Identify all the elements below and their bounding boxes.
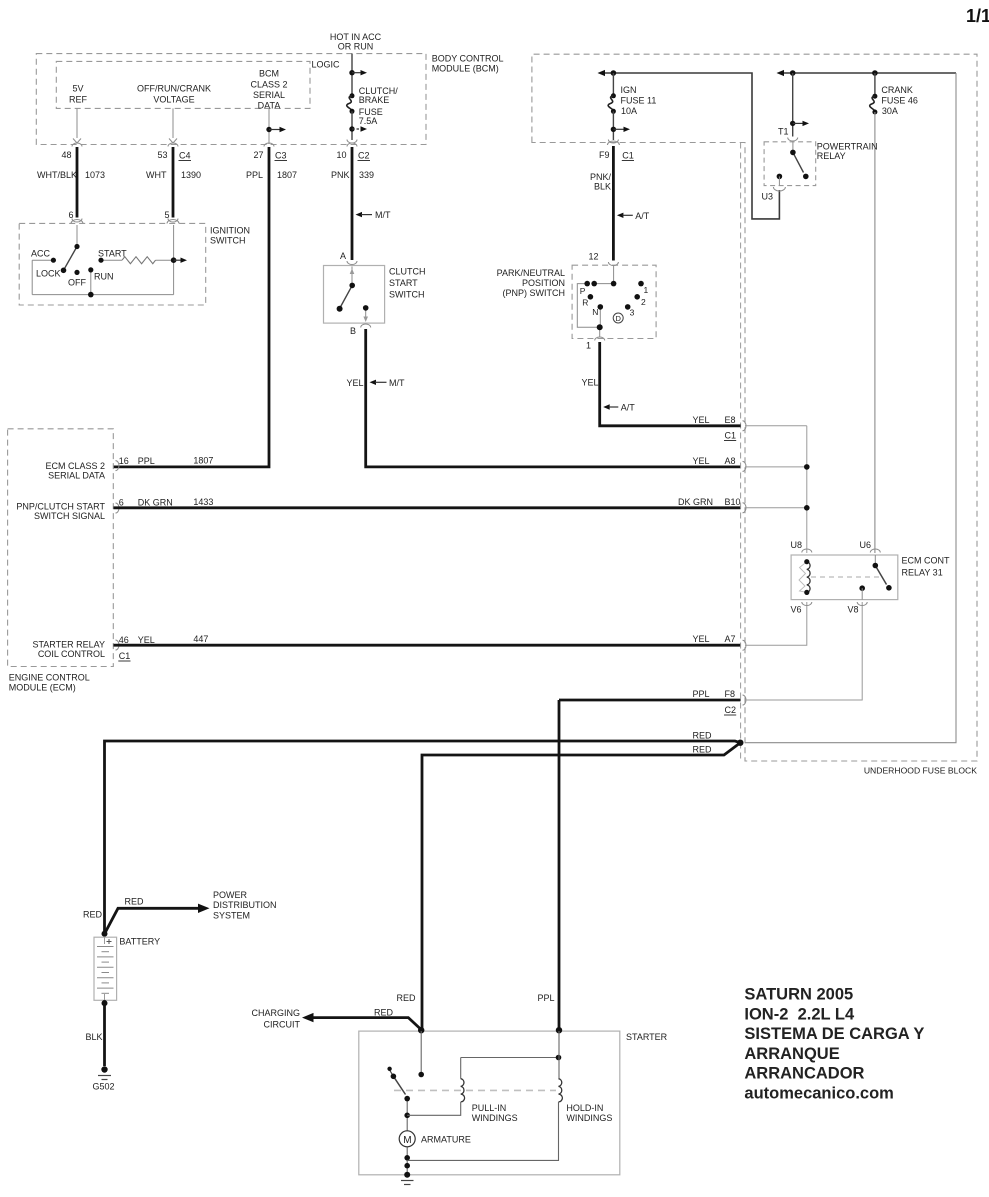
- wire PPL vertical to starter: [558, 700, 561, 1029]
- svg-text:START: START: [98, 249, 127, 259]
- wire RUN drop: [90, 270, 92, 295]
- svg-text:ARMATURE: ARMATURE: [421, 1135, 471, 1145]
- wire START to resistor: [101, 259, 122, 261]
- wire RED battery feed (row 1): [105, 741, 741, 934]
- pull-in windings label: [472, 1103, 518, 1123]
- svg-text:10: 10: [336, 150, 346, 160]
- svg-text:A: A: [340, 251, 346, 261]
- svg-text:48: 48: [61, 150, 71, 160]
- PNP switch label: [497, 268, 565, 298]
- starter box: [359, 1031, 620, 1175]
- svg-text:1807: 1807: [277, 170, 297, 180]
- wire resistor to junction: [156, 259, 174, 261]
- underhood fuse block connector face dashed line: [740, 143, 742, 762]
- hold-in windings label: [566, 1103, 612, 1123]
- svg-text:B10: B10: [725, 497, 741, 507]
- battery positive junction: [102, 931, 108, 937]
- svg-text:M/T: M/T: [389, 378, 405, 388]
- node IGN fuse tap: [611, 70, 617, 76]
- wire stub from pin6 to lever pivot: [76, 225, 78, 245]
- svg-text:PNK: PNK: [331, 170, 350, 180]
- svg-text:339: 339: [359, 170, 374, 180]
- svg-text:BATTERY: BATTERY: [119, 937, 160, 947]
- small arrow up inside clutch switch: [350, 269, 355, 275]
- svg-text:A8: A8: [725, 456, 736, 466]
- svg-text:WHT/BLK: WHT/BLK: [37, 170, 77, 180]
- svg-text:C2: C2: [358, 151, 370, 161]
- node feed junction with arrow: [349, 70, 354, 75]
- svg-text:5V: 5V: [72, 84, 83, 94]
- small arrow down inside clutch switch: [363, 317, 368, 323]
- svg-text:P: P: [580, 286, 586, 296]
- svg-text:27: 27: [253, 150, 263, 160]
- svg-text:BLK: BLK: [86, 1032, 103, 1042]
- resistor in ignition START circuit: [122, 257, 156, 264]
- node serial data junction with arrow: [266, 127, 271, 132]
- svg-text:SYSTEM: SYSTEM: [213, 911, 250, 921]
- svg-text:YEL: YEL: [693, 456, 710, 466]
- svg-text:CRANK: CRANK: [881, 85, 913, 95]
- svg-text:DK GRN: DK GRN: [138, 497, 173, 507]
- BCM module label: [432, 54, 504, 74]
- svg-text:SWITCH: SWITCH: [389, 290, 425, 300]
- svg-text:ENGINE CONTROL: ENGINE CONTROL: [9, 673, 90, 683]
- arrow at ignition junction: [174, 259, 181, 261]
- svg-text:447: 447: [193, 634, 208, 644]
- node starter RED terminal: [418, 1027, 424, 1033]
- svg-text:OFF/RUN/CRANK: OFF/RUN/CRANK: [137, 84, 211, 94]
- wire label YEL E8: [693, 415, 736, 425]
- wire RED charging circuit: [306, 1018, 421, 1030]
- svg-text:START: START: [389, 278, 418, 288]
- wire PPL F8 row (heavy): [559, 699, 741, 702]
- svg-text:T1: T1: [778, 127, 789, 137]
- contact dots ignition: [51, 244, 177, 298]
- starter motor branch: [406, 1099, 408, 1175]
- svg-text:RED: RED: [374, 1008, 394, 1018]
- svg-text:YEL: YEL: [693, 634, 710, 644]
- svg-text:DK GRN: DK GRN: [678, 497, 713, 507]
- svg-text:2: 2: [641, 297, 646, 307]
- svg-text:7.5A: 7.5A: [359, 116, 378, 126]
- svg-text:CLUTCH: CLUTCH: [389, 267, 426, 277]
- svg-text:PARK/NEUTRAL: PARK/NEUTRAL: [497, 268, 565, 278]
- svg-text:YEL: YEL: [693, 415, 710, 425]
- svg-text:PULL-IN: PULL-IN: [472, 1103, 507, 1113]
- svg-text:U3: U3: [762, 192, 774, 202]
- fuse clutch/brake 7.5A symbol: [350, 93, 355, 98]
- svg-text:RED: RED: [693, 745, 713, 755]
- node CRANK fuse tap: [872, 70, 878, 76]
- svg-text:RED: RED: [83, 910, 103, 920]
- logic box (inner BCM dashed): [56, 61, 310, 108]
- svg-text:C1: C1: [725, 431, 737, 441]
- wire YEL from PNP 1 to E8: [600, 342, 741, 426]
- svg-text:RUN: RUN: [94, 272, 114, 282]
- svg-text:CLASS 2: CLASS 2: [250, 80, 287, 90]
- title text block: [744, 986, 924, 1103]
- svg-text:M: M: [403, 1135, 411, 1146]
- svg-text:12: 12: [588, 252, 598, 262]
- svg-text:BCM: BCM: [259, 69, 279, 79]
- connector mark PNP 12: [608, 262, 618, 266]
- wire junction drop: [173, 260, 175, 294]
- wire RED to power distribution: [105, 908, 201, 934]
- svg-text:N: N: [592, 307, 598, 317]
- arrow feed 1: [598, 70, 606, 76]
- svg-text:OFF: OFF: [68, 278, 86, 288]
- svg-text:ACC: ACC: [31, 249, 51, 259]
- svg-text:A7: A7: [725, 634, 736, 644]
- svg-text:RED: RED: [397, 993, 417, 1003]
- arrow M/T below clutch switch: [370, 380, 377, 385]
- module BCM (Body Control Module) dashed box: [36, 54, 426, 145]
- connector marks at relay 31: [802, 549, 881, 606]
- connector mark U3: [773, 187, 785, 191]
- svg-text:ION-2 2.2L L4: ION-2 2.2L L4: [744, 1005, 855, 1023]
- svg-text:OR RUN: OR RUN: [338, 42, 374, 52]
- svg-text:B: B: [350, 326, 356, 336]
- svg-text:FUSE 46: FUSE 46: [881, 96, 918, 106]
- svg-text:C3: C3: [275, 151, 287, 161]
- connector mark PNP 1: [595, 337, 605, 340]
- wire WHT 1390 (BCM 53 to ignition 5): [172, 147, 175, 218]
- pull-in winding circuit: [460, 1058, 462, 1079]
- svg-text:ECM CONT: ECM CONT: [902, 556, 950, 566]
- node D (circled): [613, 313, 623, 323]
- svg-text:SERIAL DATA: SERIAL DATA: [48, 471, 105, 481]
- node fuse output junction with dashed arrow: [349, 126, 354, 131]
- svg-text:1433: 1433: [193, 497, 213, 507]
- svg-text:RELAY: RELAY: [817, 151, 846, 161]
- fuse block internal thin wires E8/A8/B10 to relay U8: [745, 426, 862, 700]
- svg-text:MODULE (BCM): MODULE (BCM): [432, 64, 499, 74]
- node HOT IN ACC OR RUN: [330, 32, 382, 52]
- battery + mark: [107, 939, 112, 944]
- svg-text:PPL: PPL: [138, 456, 155, 466]
- relay 31 linkage dashed: [811, 576, 883, 578]
- svg-text:COIL CONTROL: COIL CONTROL: [38, 649, 105, 659]
- powertrain relay internals: [792, 142, 794, 151]
- node junction A8/U8: [804, 464, 810, 470]
- svg-text:ARRANQUE: ARRANQUE: [744, 1045, 839, 1063]
- svg-text:PNK/: PNK/: [590, 172, 612, 182]
- node junction below IGN fuse with arrow: [611, 127, 616, 132]
- wire stub from pin5 to start junction: [173, 225, 175, 260]
- svg-text:E8: E8: [725, 415, 736, 425]
- wire crank fuse down to relay U6: [874, 112, 876, 553]
- svg-text:G502: G502: [93, 1082, 115, 1092]
- arrow M/T on PNK wire: [356, 212, 363, 217]
- svg-text:3: 3: [630, 308, 635, 318]
- node T1 tap: [790, 70, 796, 76]
- wire bottom rail: [32, 294, 173, 296]
- clutch start switch label: [389, 267, 426, 300]
- connector mark at clutch switch B: [361, 324, 371, 327]
- wire label PNK/BLK: [590, 172, 612, 192]
- svg-text:BRAKE: BRAKE: [359, 95, 390, 105]
- svg-text:WINDINGS: WINDINGS: [472, 1113, 518, 1123]
- node POWER DISTRIBUTION SYSTEM: [213, 890, 277, 921]
- motor M armature: [399, 1131, 415, 1147]
- svg-text:1: 1: [644, 285, 649, 295]
- fuse IGN FUSE 11 10A: [612, 73, 614, 96]
- hold-in winding circuit: [558, 1031, 560, 1079]
- node RED junction: [737, 740, 743, 746]
- svg-text:STARTER: STARTER: [626, 1032, 668, 1042]
- PNP position labels: [580, 285, 649, 318]
- svg-text:1807: 1807: [193, 456, 213, 466]
- starter solenoid contact feed: [420, 1031, 422, 1072]
- pin 16 and wire label PPL 1807: [119, 456, 214, 467]
- svg-text:1/1: 1/1: [966, 6, 989, 26]
- svg-text:C1: C1: [622, 151, 634, 161]
- node 5V REF: [69, 84, 88, 105]
- svg-text:ECM CLASS 2: ECM CLASS 2: [45, 461, 105, 471]
- value label clutch/brake fuse: [359, 86, 399, 126]
- svg-text:C2: C2: [725, 705, 737, 715]
- arrow feed 2: [777, 70, 785, 76]
- svg-text:FUSE 11: FUSE 11: [621, 96, 657, 106]
- connector mark at clutch switch A: [347, 261, 357, 265]
- svg-text:ARRANCADOR: ARRANCADOR: [744, 1065, 864, 1083]
- wire right rail down to RED junction: [745, 73, 956, 743]
- wire label WHT/BLK 1073: [37, 170, 374, 180]
- svg-text:PPL: PPL: [538, 993, 555, 1003]
- svg-text:BLK: BLK: [594, 182, 611, 192]
- underhood fuse block dashed outline (L-shape): [532, 54, 977, 761]
- wire PNK/BLK (F9 to PNP 12): [612, 146, 615, 261]
- ECM CONT RELAY 31 label: [902, 556, 950, 578]
- svg-text:POSITION: POSITION: [522, 278, 565, 288]
- svg-text:RED: RED: [693, 731, 713, 741]
- svg-text:SWITCH SIGNAL: SWITCH SIGNAL: [34, 511, 105, 521]
- svg-text:WHT: WHT: [146, 170, 167, 180]
- wire label YEL A7: [693, 634, 736, 644]
- svg-text:UNDERHOOD FUSE BLOCK: UNDERHOOD FUSE BLOCK: [864, 766, 977, 776]
- svg-text:SWITCH: SWITCH: [210, 236, 246, 246]
- svg-text:A/T: A/T: [635, 211, 650, 221]
- svg-text:(PNP) SWITCH: (PNP) SWITCH: [503, 288, 566, 298]
- clutch switch internals: [352, 267, 366, 318]
- wire label YEL A8: [693, 456, 736, 466]
- svg-text:LOGIC: LOGIC: [312, 60, 341, 70]
- svg-text:IGNITION: IGNITION: [210, 226, 250, 236]
- svg-text:10A: 10A: [621, 106, 637, 116]
- connector marks at ignition switch top: [71, 219, 179, 224]
- svg-text:RELAY 31: RELAY 31: [902, 568, 943, 578]
- svg-text:F9: F9: [599, 150, 610, 160]
- connector marks at ECM right edge: [116, 461, 120, 650]
- wire RED starter feed (row 2): [422, 743, 740, 1029]
- svg-text:SATURN 2005: SATURN 2005: [744, 986, 853, 1004]
- wire ACC to left rail: [32, 259, 53, 261]
- svg-text:YEL: YEL: [138, 635, 155, 645]
- wire DK GRN 1433 (ECM 6 to B10): [114, 506, 741, 509]
- PNP internals wires: [577, 266, 613, 338]
- connector marks at fuse block notch edge F9: [607, 140, 619, 146]
- fuse CRANK FUSE 46 30A: [874, 73, 876, 96]
- svg-text:WINDINGS: WINDINGS: [566, 1113, 612, 1123]
- svg-text:STARTER RELAY: STARTER RELAY: [32, 640, 105, 650]
- wire label PPL F8: [693, 689, 736, 699]
- pin C4 C3 C2 labels (underlined): [179, 151, 370, 161]
- pin 46 and wire label YEL 447: [119, 634, 209, 645]
- wire IGN fuse output: [612, 111, 614, 140]
- svg-text:1: 1: [586, 341, 591, 351]
- svg-text:5: 5: [165, 210, 170, 220]
- arrow A/T on PNP output wire: [603, 404, 610, 409]
- node CHARGING CIRCUIT: [251, 1008, 300, 1030]
- svg-text:YEL: YEL: [582, 378, 599, 388]
- wire top feed segment 1: [601, 73, 779, 219]
- ignition switch label: [210, 226, 250, 246]
- ignition position labels: [31, 249, 127, 288]
- ECM module label: [9, 673, 90, 693]
- svg-text:BODY CONTROL: BODY CONTROL: [432, 54, 504, 64]
- svg-text:D: D: [616, 314, 622, 323]
- svg-text:C1: C1: [119, 651, 131, 661]
- wire BLK battery negative: [103, 1000, 106, 1066]
- svg-text:HOT IN ACC: HOT IN ACC: [330, 32, 382, 42]
- svg-text:6: 6: [69, 210, 74, 220]
- svg-text:POWER: POWER: [213, 890, 248, 900]
- svg-text:HOLD-IN: HOLD-IN: [566, 1103, 603, 1113]
- ECM dashed box: [8, 429, 114, 667]
- svg-text:IGN: IGN: [621, 85, 637, 95]
- svg-text:C4: C4: [179, 151, 191, 161]
- wire left rail vertical: [31, 260, 33, 294]
- switch lever (ignition): [64, 247, 78, 271]
- wire YEL 447 (ECM 46 to A7): [114, 644, 741, 647]
- svg-text:DISTRIBUTION: DISTRIBUTION: [213, 900, 277, 910]
- wire PPL 1807 (BCM 27 down to ECM class2 row): [114, 147, 270, 467]
- ignition switch internals: [32, 225, 173, 295]
- connector marks at BCM bottom edge: [73, 139, 177, 144]
- battery B1: [94, 937, 117, 1000]
- svg-text:A/T: A/T: [621, 403, 636, 413]
- node PNP/CLUTCH START SWITCH SIGNAL: [16, 502, 105, 522]
- svg-text:POWERTRAIN: POWERTRAIN: [817, 142, 878, 152]
- node ECM CLASS 2 SERIAL DATA: [45, 461, 105, 481]
- clutch switch lever: [340, 285, 353, 308]
- PNP switch dashed box: [572, 265, 656, 338]
- starter ground: [401, 1180, 414, 1182]
- connector mark pin 10 at BCM bottom: [72, 140, 357, 147]
- relay 31 coil: [807, 562, 810, 593]
- clutch start switch box: [324, 266, 385, 324]
- wire fuse output: [351, 111, 353, 140]
- ground G502: [101, 1066, 107, 1072]
- svg-text:MODULE (ECM): MODULE (ECM): [9, 683, 76, 693]
- svg-text:YEL: YEL: [347, 378, 364, 388]
- powertrain relay dashed box: [764, 142, 816, 186]
- ignition switch dashed box: [19, 223, 206, 305]
- connector mark T1: [788, 138, 798, 142]
- svg-text:SISTEMA DE CARGA Y: SISTEMA DE CARGA Y: [744, 1025, 924, 1043]
- svg-text:RED: RED: [125, 897, 145, 907]
- wire YEL from clutch B down and right to A8: [366, 329, 741, 467]
- svg-text:53: 53: [157, 150, 167, 160]
- svg-text:PNP/CLUTCH START: PNP/CLUTCH START: [16, 502, 105, 512]
- svg-text:CHARGING: CHARGING: [251, 1008, 300, 1018]
- node junction B10/U8: [804, 505, 810, 511]
- svg-text:V6: V6: [791, 605, 802, 615]
- svg-text:PPL: PPL: [246, 170, 263, 180]
- PNP contact dots: [584, 281, 643, 330]
- solenoid linkage dashed: [394, 1089, 556, 1091]
- pin 6 and wire label DK GRN 1433: [119, 497, 214, 507]
- svg-text:SERIAL: SERIAL: [253, 90, 285, 100]
- wire PNK 339 (BCM 10 to clutch start switch A): [351, 147, 354, 260]
- node OFF/RUN/CRANK VOLTAGE: [137, 84, 211, 105]
- clutch switch contact dots: [337, 283, 369, 312]
- svg-text:1390: 1390: [181, 170, 201, 180]
- svg-text:U6: U6: [860, 540, 872, 550]
- ECM CONT RELAY 31 box: [791, 555, 898, 600]
- powertrain relay label: [817, 142, 878, 162]
- starter solenoid lever: [389, 1069, 393, 1076]
- connector marks at fuse block face: [743, 421, 747, 705]
- svg-text:CIRCUIT: CIRCUIT: [264, 1020, 301, 1030]
- svg-text:6: 6: [119, 497, 124, 507]
- wire top feed segment 2: [780, 72, 956, 74]
- svg-text:V8: V8: [848, 605, 859, 615]
- svg-text:VOLTAGE: VOLTAGE: [153, 95, 194, 105]
- arrow A/T on PNK/BLK wire: [617, 213, 624, 218]
- svg-text:PPL: PPL: [693, 689, 710, 699]
- svg-text:30A: 30A: [882, 106, 898, 116]
- relay T1 feed wire: [792, 73, 794, 137]
- wire BCM internal drops (5V REF, OFF/RUN/CRANK, serial data): [77, 108, 269, 144]
- wire WHT/BLK 1073 (BCM 48 to ignition 6): [76, 147, 79, 218]
- svg-text:M/T: M/T: [375, 210, 391, 220]
- node STARTER RELAY COIL CONTROL: [32, 640, 105, 660]
- svg-text:R: R: [582, 298, 588, 308]
- svg-text:F8: F8: [725, 689, 736, 699]
- svg-text:16: 16: [119, 456, 129, 466]
- node T1 junction with arrow: [790, 121, 795, 126]
- pin 48 label: [61, 150, 346, 160]
- svg-text:46: 46: [119, 635, 129, 645]
- svg-text:REF: REF: [69, 95, 88, 105]
- node BCM CLASS 2 SERIAL DATA: [250, 69, 287, 111]
- svg-text:1073: 1073: [85, 170, 105, 180]
- wire hot feed into clutch/brake fuse: [351, 54, 353, 96]
- node starter PPL terminal: [556, 1027, 562, 1033]
- relay 31 switch: [874, 555, 876, 563]
- svg-text:LOCK: LOCK: [36, 269, 61, 279]
- svg-text:automecanico.com: automecanico.com: [744, 1085, 893, 1103]
- svg-text:U8: U8: [791, 540, 803, 550]
- wire label DK GRN B10: [678, 497, 741, 507]
